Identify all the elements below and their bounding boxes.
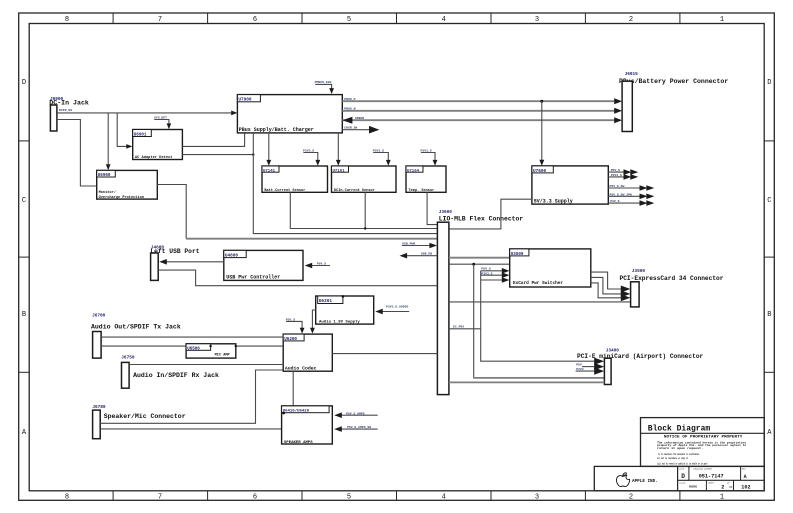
wire USB port data to flex [158,270,437,286]
svg-text:2: 2 [629,494,633,502]
svg-text:AC Adapter Detect: AC Adapter Detect [135,155,173,160]
wire temp sensor output to flex [427,192,437,224]
net label arrow out of flex (USB enable) [400,252,438,259]
svg-text:6: 6 [253,16,257,24]
wire PBUS drop to U7600 [541,101,543,160]
wire AC detect out1 to U7900 drop [182,133,244,147]
net label stub into amps right 1 [334,411,378,418]
connector J3400 PCI-E miniCard (Airport) [577,349,704,385]
svg-text:SPEAKER AMPS: SPEAKER AMPS [284,441,313,445]
connector J6750 Audio In/SPDIF Rx Jack [121,356,219,389]
svg-text:U4600: U4600 [225,253,239,258]
svg-text:DCIN_SS: DCIN_SS [59,108,72,112]
svg-text:Batt.Current Sensor: Batt.Current Sensor [264,188,305,193]
net label stub into amps right 2 [334,425,378,432]
svg-text:P5V_S: P5V_S [481,267,490,271]
svg-text:C: C [767,197,771,205]
junction rail A [472,263,475,266]
svg-text:Audio Codec: Audio Codec [285,366,317,372]
svg-text:Audio 1.8V Supply: Audio 1.8V Supply [319,320,360,325]
wire audio out jack line2 through mic amp to codec [101,345,283,347]
svg-text:P3V3_S: P3V3_S [373,148,384,152]
svg-text:USB_PWR: USB_PWR [402,241,415,245]
svg-text:SHEET: SHEET [708,481,715,484]
wire drop to AC adapter detect [117,113,127,146]
svg-text:PCI-E miniCard (Airport) Conne: PCI-E miniCard (Airport) Connector [577,353,704,360]
svg-text:P3V3_S_AUDIO: P3V3_S_AUDIO [386,304,408,308]
net label stub into switcher 2 [481,271,510,278]
block U6201 Audio 1.8V Supply [316,295,374,325]
svg-text:U6201: U6201 [319,299,333,304]
svg-text:USB Pwr Controller: USB Pwr Controller [226,275,280,281]
svg-text:SCALE: SCALE [679,481,686,484]
wire DC-In jack to U7900 [57,112,232,114]
svg-text:return it upon request.: return it upon request. [657,446,703,450]
net label into temp sensor [421,148,438,165]
svg-text:ExCard Pwr Switcher: ExCard Pwr Switcher [513,281,563,286]
svg-text:J6780: J6780 [92,405,106,410]
svg-text:4: 4 [442,16,446,24]
svg-text:J6700: J6700 [92,313,106,318]
net label PPBUS_G3H into U7900 top [315,80,334,94]
net label into batt sensor [303,148,320,165]
wire jack lower pin to monitor block [57,120,97,187]
svg-text:B: B [22,311,26,319]
svg-text:DCIn.Current Sensor: DCIn.Current Sensor [334,188,375,193]
wire U7900 PBUS out 2 to J6915 [342,110,616,112]
net label into DCIn sensor [373,148,391,165]
svg-text:102: 102 [741,485,750,491]
wire U7900 drop to DCIn current sensor [337,133,339,160]
net label stub into USB controller right [305,261,330,268]
svg-text:iii) not to reveal or publish: iii) not to reveal or publish it in whol… [657,462,708,466]
block U7141 Batt.Current Sensor [262,166,328,193]
svg-text:J3500: J3500 [632,269,646,274]
svg-text:P5V_S: P5V_S [317,261,326,265]
svg-text:D: D [681,473,685,480]
svg-text:PBUS_N: PBUS_N [344,107,355,111]
net label arrow into codec top [286,317,305,333]
svg-text:3: 3 [535,494,539,502]
svg-text:J6915: J6915 [625,72,639,77]
wire codec output to flex [332,353,437,355]
svg-text:OF: OF [729,486,733,489]
svg-text:1: 1 [720,494,724,502]
svg-text:Overcharge Protection: Overcharge Protection [99,195,144,200]
block U7161 DCIn.Current Sensor [332,166,397,193]
apple logo [616,473,629,487]
svg-text:7: 7 [158,16,162,24]
svg-text:PBUS_P: PBUS_P [344,97,355,101]
svg-text:DRAWING NUMBER: DRAWING NUMBER [694,467,713,470]
wire switcher out2 to J3500 [591,277,625,294]
block U6200 Audio Codec [283,334,332,372]
wire monitor output to LIO-MLB flex (bus3) [157,185,186,239]
svg-text:PPBUS_G3H: PPBUS_G3H [315,80,332,84]
svg-text:none: none [689,486,697,490]
svg-text:APPLE IND.: APPLE IND. [632,479,658,484]
connector J6700 Audio Out/SPDIF Tx Jack [91,313,181,358]
block U6410/U6420 Speaker Amps [282,406,333,445]
wire U7900 drop v2 to flex (bus2) [253,133,437,234]
net label arrow into flex (USB power) [402,241,437,248]
wire AC detect out2 joins U7900 drop v2 [182,154,253,156]
svg-text:Audio Out/SPDIF Tx Jack: Audio Out/SPDIF Tx Jack [91,323,181,330]
svg-text:2: 2 [721,485,724,491]
wire flex to ExCard switcher in1 [449,257,510,259]
svg-text:051-7147: 051-7147 [699,474,724,480]
block U7164 Temp. Sensor [406,166,446,193]
svg-text:i) to maintain the document in: i) to maintain the document in confidenc… [658,452,699,456]
wire switcher out1 to J3500 [591,272,625,289]
block U6960 Monitor / Overcharge Protection [97,170,158,199]
wire U7600 input from flex right side [449,199,532,229]
wire rail B down to J3400 [481,271,598,361]
wire USB controller to port [165,261,224,263]
svg-text:D: D [22,79,26,87]
net label P3V3 over AC adapter detect [154,116,171,130]
svg-text:4: 4 [442,494,446,502]
wire audio in jack to codec [129,364,283,366]
connector J6900 DC-In Jack [49,97,89,131]
U7600 output 3 [608,184,654,191]
svg-text:ii) not to reproduce or copy i: ii) not to reproduce or copy it [657,456,688,460]
svg-text:NOTICE OF PROPRIETARY PROPERTY: NOTICE OF PROPRIETARY PROPERTY [664,436,744,440]
wire audio out jack line1 to codec [101,336,283,338]
svg-text:D: D [767,79,771,87]
svg-text:8: 8 [65,494,69,502]
svg-text:SIZE: SIZE [679,467,685,470]
svg-text:U7600: U7600 [533,169,547,174]
junction [252,153,254,155]
svg-text:U7161: U7161 [333,169,346,173]
svg-text:P3V3_S: P3V3_S [421,148,432,152]
svg-text:5V/3.3 Supply: 5V/3.3 Supply [534,199,573,205]
svg-text:1: 1 [720,16,724,24]
svg-text:U7164: U7164 [407,169,420,173]
U7600 output 4 [608,192,654,199]
wire U7900 DCIN output stub [342,129,369,131]
title block lower strip [594,466,764,490]
wire flex to J3500 bottom pin [449,301,631,303]
svg-text:2: 2 [629,16,633,24]
svg-text:P3V3_S: P3V3_S [303,148,314,152]
svg-text:U7900: U7900 [238,98,252,103]
junction on PBUS_P feeding U7600 [540,100,543,103]
svg-text:8: 8 [65,16,69,24]
title block [641,418,765,467]
svg-text:P3V_S: P3V_S [286,317,295,321]
block U6901 AC Adapter Detect [133,130,183,161]
svg-text:Speaker/Mic Connector: Speaker/Mic Connector [104,413,186,420]
block U6500 MIC AMP [186,344,237,358]
svg-text:CHGR_SW: CHGR_SW [344,125,357,129]
svg-text:USB_EN: USB_EN [421,252,432,256]
svg-text:Audio In/SPDIF Rx Jack: Audio In/SPDIF Rx Jack [133,372,219,379]
wire flex to J3400 bottom pin [449,381,605,383]
wire U7900 drop to batt current sensor [268,133,270,160]
connector J6915 PBus/Battery Power Connector [619,72,728,132]
wire flex to rail B with net label [449,325,481,329]
svg-text:U6200: U6200 [284,338,297,342]
svg-text:LIO-MLB Flex Connector: LIO-MLB Flex Connector [439,216,524,223]
wire rail A down to J3400 [473,264,475,378]
svg-text:PBus Supply/Batt. Charger: PBus Supply/Batt. Charger [239,127,314,133]
svg-text:J6750: J6750 [121,356,135,361]
svg-text:6: 6 [253,494,257,502]
block U4600 USB Pwr Controller [224,250,303,280]
block U7600 5V/3.3 Supply [532,166,608,205]
svg-text:U6500: U6500 [187,347,200,351]
connector J4600 Left USB Port [150,246,199,281]
svg-text:PBus/Battery Power Connector: PBus/Battery Power Connector [619,78,728,85]
svg-text:A: A [744,474,747,480]
wire drop to monitor block [107,113,109,165]
svg-text:MIC AMP: MIC AMP [215,354,230,358]
svg-text:P5V_S_AMPS_SW: P5V_S_AMPS_SW [347,425,371,429]
svg-text:U6901: U6901 [134,133,147,137]
svg-text:7: 7 [158,494,162,502]
wire switcher out3 to J3500 [591,283,625,298]
connector J3500 PCI-ExpressCard 34 [620,269,724,307]
connector J3600 LIO-MLB Flex Connector [437,210,523,394]
svg-text:B: B [767,311,771,319]
svg-text:Block Diagram: Block Diagram [648,424,711,433]
net label stub into J3400 row3 [576,367,605,375]
svg-text:C: C [22,197,26,205]
wire U7900 PBUS out 1 to J6915 [342,100,616,102]
wire flex to ExCard switcher in2 [449,263,510,265]
svg-text:3: 3 [535,16,539,24]
U7600 output 1 [608,168,638,175]
svg-text:U3500: U3500 [511,253,524,257]
wire audio supply down to codec [312,310,315,328]
U7600 output 5 [608,199,654,206]
svg-text:U6410/U6420: U6410/U6420 [283,409,310,414]
wire stub into switcher 3 [481,279,504,281]
svg-text:5: 5 [347,494,351,502]
svg-text:Temp. Sensor: Temp. Sensor [408,188,434,193]
svg-text:J3600: J3600 [439,210,453,215]
wire codec down to speaker amps [292,371,294,406]
block U7900 PBus Supply/Batt. Charger [237,95,342,134]
svg-text:EC_P5V: EC_P5V [453,325,464,329]
svg-text:SMBUS: SMBUS [355,116,364,120]
svg-text:REV: REV [742,467,747,470]
svg-text:P5V: P5V [576,363,582,367]
svg-text:5: 5 [347,16,351,24]
wire DCIn sensor output joins bus1 [364,192,366,228]
net label stub into switcher 1 [481,267,510,274]
block U3500 ExCard Pwr Switcher [510,249,591,287]
wire batt sensor output to flex (bus1) [290,192,437,228]
net label stub into J3400 row2 [576,363,604,371]
connector J6780 Speaker/Mic Connector [92,405,185,439]
svg-text:U7141: U7141 [263,169,276,173]
svg-text:U6960: U6960 [98,174,111,178]
svg-text:Monitor/: Monitor/ [99,190,116,195]
wire speaker conn mic line up to codec [100,370,283,423]
U7600 output 2 [608,173,638,180]
wire speaker conn to speaker amps [100,428,281,430]
svg-text:P5V_S_SW: P5V_S_SW [610,184,625,188]
wire U7900 SMBus to J6915 (bidirectional) [342,119,616,121]
net label stub into audio supply right [375,304,409,314]
